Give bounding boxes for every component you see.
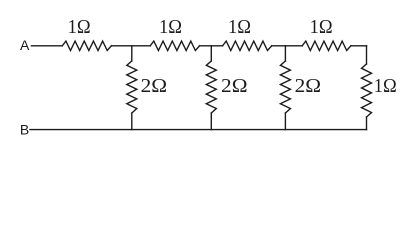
resistor R8 1Ω right branch — [362, 64, 372, 117]
svg-text:2Ω: 2Ω — [295, 76, 322, 97]
svg-text:1Ω: 1Ω — [68, 17, 91, 38]
svg-text:1Ω: 1Ω — [310, 17, 333, 38]
wire top lead of R7 — [284, 46, 286, 61]
wire bottom lead of R5 — [131, 113, 133, 130]
svg-text:1Ω: 1Ω — [374, 76, 397, 97]
wire top lead of R5 — [131, 46, 133, 61]
wire bottom lead of R7 — [284, 113, 286, 130]
wire A to R1 — [31, 45, 62, 47]
svg-text:2Ω: 2Ω — [221, 76, 248, 97]
wire R2 to R3 — [200, 45, 223, 47]
resistor R5 2Ω shunt — [127, 61, 137, 113]
resistor R2 1Ω series — [150, 41, 199, 50]
svg-text:1Ω: 1Ω — [228, 17, 251, 38]
wire B to bottom-right — [30, 129, 367, 131]
wire bottom lead of R6 — [210, 113, 212, 130]
resistor R7 2Ω shunt — [280, 61, 290, 113]
wire top lead of R8 — [366, 46, 368, 64]
resistor R1 1Ω series — [62, 41, 111, 50]
wire R3 to R4 — [272, 45, 303, 47]
wire R1 to R2 — [111, 45, 150, 47]
wire R4 to top-right corner — [351, 45, 367, 47]
resistor R4 1Ω series — [302, 41, 351, 50]
svg-text:2Ω: 2Ω — [141, 76, 168, 97]
wire top lead of R6 — [210, 46, 212, 61]
resistor R6 2Ω shunt — [206, 61, 216, 113]
resistor R3 1Ω series — [223, 41, 272, 50]
svg-text:A: A — [20, 37, 30, 53]
svg-text:B: B — [20, 121, 29, 137]
svg-text:1Ω: 1Ω — [159, 17, 182, 38]
wire bottom lead of R8 — [366, 117, 368, 130]
